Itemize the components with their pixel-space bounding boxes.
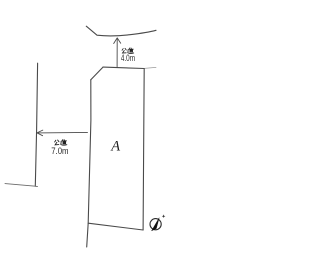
north compass needle <box>152 218 160 231</box>
dimension arrow 4.0m <box>114 38 121 67</box>
label 道 (4.0m road) <box>128 48 134 53</box>
svg-text:4.0m: 4.0m <box>121 53 135 63</box>
label 公 (7.0m road) <box>55 140 59 145</box>
plot A top edge <box>103 67 144 68</box>
dimension arrow 7.0m <box>37 130 88 136</box>
north compass circle <box>150 219 161 230</box>
plot A left edge / road east edge <box>87 80 91 247</box>
bottom-left boundary line <box>5 184 38 187</box>
boundary stub right of plot A <box>144 67 156 68</box>
svg-text:A: A <box>110 139 120 155</box>
road 7.0m west edge <box>35 63 37 186</box>
north compass star <box>162 214 166 218</box>
road 4.0m far edge <box>86 26 156 36</box>
svg-text:7.0m: 7.0m <box>51 145 68 156</box>
plot A corner cut <box>91 67 103 80</box>
label 公 (4.0m road) <box>122 48 126 53</box>
plot A bottom edge <box>88 223 143 230</box>
plot A right edge <box>143 69 144 231</box>
label 道 (7.0m road) <box>61 140 67 146</box>
